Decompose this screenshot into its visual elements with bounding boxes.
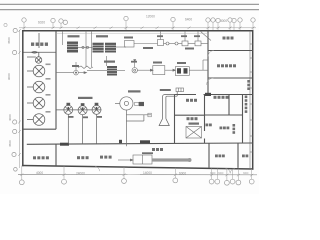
svg-text:6400: 6400 (185, 17, 192, 21)
svg-text:3000: 3000 (220, 19, 227, 23)
svg-text:12000: 12000 (146, 15, 155, 19)
svg-text:4500: 4500 (7, 37, 11, 44)
svg-text:4000: 4000 (8, 114, 12, 121)
svg-text:6000: 6000 (179, 171, 186, 175)
svg-text:6020: 6020 (38, 21, 45, 25)
svg-text:14000: 14000 (143, 171, 152, 175)
svg-text:4500: 4500 (8, 140, 12, 147)
svg-text:9000: 9000 (7, 73, 11, 80)
svg-text:4000: 4000 (36, 171, 43, 175)
svg-text:24000: 24000 (76, 171, 85, 175)
svg-text:3000: 3000 (218, 172, 224, 175)
svg-text:3000: 3000 (243, 172, 249, 175)
svg-text:3000: 3000 (210, 172, 216, 175)
